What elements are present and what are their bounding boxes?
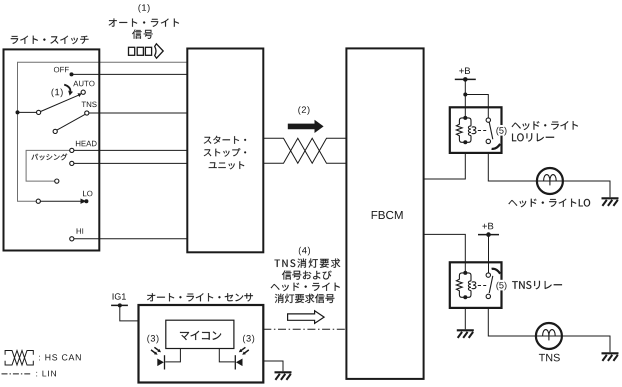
wire HI to unit <box>74 238 188 240</box>
label (1) lever <box>52 89 63 98</box>
wire micro to left photodiode <box>165 349 180 362</box>
unit label line1 <box>204 136 246 144</box>
contact OFF <box>70 72 74 76</box>
rotation arrow (1) <box>64 85 70 92</box>
lever arrowhead <box>78 93 82 97</box>
TNS lamp <box>536 323 562 349</box>
contact LO <box>84 199 88 203</box>
signal flow arrowhead (1) <box>155 44 164 58</box>
relay motion arc @262.3 <box>492 269 501 274</box>
LO moving contact <box>36 199 40 203</box>
twisted pair wire A <box>263 138 346 163</box>
contact passing <box>70 161 74 165</box>
lever moving contact <box>37 110 41 114</box>
label auto light sensor <box>147 293 253 301</box>
label OFF <box>54 67 69 73</box>
label +B (LO relay) <box>459 68 470 75</box>
+B bar (LO relay) <box>455 78 476 80</box>
relay actuation dashes @107.3 <box>478 130 486 132</box>
wire micro to right photodiode <box>219 349 234 362</box>
passing moving contact <box>55 179 59 183</box>
label LO <box>83 191 92 197</box>
label auto light signal line2 <box>132 30 153 39</box>
relay box @107.3 <box>450 107 502 153</box>
wire LO relay switch to lamp <box>488 153 537 181</box>
legend HS CAN text <box>39 354 80 360</box>
wire +B to relay coil <box>464 79 466 118</box>
wire FBCM to TNS relay coil <box>424 234 466 273</box>
label FBCM <box>372 211 403 219</box>
wire TNS to unit <box>89 112 187 114</box>
label (3) left <box>147 335 158 344</box>
label TNS off request line4 <box>275 294 335 303</box>
label light switch <box>11 36 89 45</box>
relay coil winding @107.3 <box>468 126 476 136</box>
label (5) LO relay <box>496 127 506 136</box>
label auto light signal line1 <box>109 19 179 27</box>
relay coil bottom terminal @107.3 <box>463 140 467 144</box>
passing linkage (gray) <box>26 150 70 181</box>
LO lever arm <box>40 200 82 202</box>
label TNS relay <box>512 281 562 289</box>
relay coil top terminal @262.3 <box>463 271 467 275</box>
label TNS off request line3 <box>271 283 340 292</box>
label headlight LO relay line2 <box>512 133 554 141</box>
ground (TNS relay) <box>457 330 474 338</box>
wire LO relay coil to FBCM <box>424 153 466 179</box>
relay coil winding @262.3 <box>468 281 476 291</box>
wire passing to unit <box>74 162 188 164</box>
wire LO lamp to ground <box>563 181 610 197</box>
contact TNS <box>85 111 89 115</box>
relay switch bottom contact @262.3 <box>486 294 490 298</box>
wire OFF to unit <box>72 73 188 75</box>
wire TNS lamp to ground <box>562 336 610 352</box>
relay switch lever @262.3 <box>489 276 493 293</box>
unit label line3 <box>209 161 244 169</box>
label headlight LO lamp <box>508 199 590 208</box>
label +B (TNS relay) <box>482 223 493 230</box>
second lever arm <box>57 114 85 130</box>
unit label line2 <box>204 148 246 156</box>
relay switch lever @107.3 <box>489 122 493 139</box>
FBCM box <box>346 48 423 379</box>
left light rays <box>151 347 159 353</box>
request arrow (4) <box>288 311 325 324</box>
second lever pivot <box>53 129 57 133</box>
relay actuation dashes @262.3 <box>478 285 486 287</box>
rotation arrowhead (1) <box>68 91 73 96</box>
label TNS lamp <box>539 354 560 362</box>
ground (headlight LO) <box>602 198 619 206</box>
label microcomputer <box>180 331 221 340</box>
label IG1 <box>113 293 126 299</box>
light switch box <box>4 49 100 250</box>
wire sensor to ground <box>263 361 283 371</box>
headlight LO lamp <box>537 168 563 194</box>
label (1) top <box>138 4 149 13</box>
label TNS off request line1 <box>275 259 341 268</box>
signal flow squares (1) <box>129 47 152 55</box>
right ray arrowheads <box>239 349 246 355</box>
relay box @262.3 <box>450 262 502 308</box>
relay coil loop left @107.3 <box>456 118 465 142</box>
lever arm toward AUTO <box>41 95 79 111</box>
wire IG1 to sensor <box>120 305 139 321</box>
relay coil top terminal @107.3 <box>463 116 467 120</box>
+B bar (TNS relay) <box>478 234 499 236</box>
right photodiode <box>234 355 236 369</box>
relay motion arc @107.3 <box>492 144 501 149</box>
label HI <box>77 228 84 233</box>
right photodiode triangle <box>236 359 243 367</box>
left photodiode <box>164 355 166 369</box>
label (5) LO relay gap <box>495 125 508 136</box>
contact AUTO <box>81 90 85 94</box>
label AUTO <box>73 81 94 87</box>
wire +B to TNS relay switch <box>488 235 490 276</box>
ground (TNS lamp) <box>602 353 619 361</box>
legend HS CAN wire A <box>5 351 33 366</box>
switch common wire (gray) <box>18 62 188 201</box>
microcomputer box <box>166 320 234 348</box>
relay coil loop right @107.3 <box>465 118 471 142</box>
relay switch top contact @262.3 <box>486 273 490 277</box>
relay switch bottom contact @107.3 <box>486 139 490 143</box>
contact HEAD <box>70 148 74 152</box>
wire HEAD to unit <box>74 149 188 151</box>
IG1 dot <box>118 303 122 307</box>
contact HI <box>70 237 74 241</box>
relay switch top contact @107.3 <box>486 118 490 122</box>
left photodiode triangle <box>157 359 164 367</box>
legend LIN wire <box>2 373 31 375</box>
label (5) TNS relay gap <box>495 280 508 291</box>
auto light sensor box <box>139 305 264 383</box>
+B dot (LO relay) <box>463 77 468 82</box>
lever pivot <box>16 110 20 114</box>
label passing <box>32 154 68 161</box>
IG1 bar <box>111 304 128 306</box>
relay coil loop right @262.3 <box>465 273 471 297</box>
LO lever arrowhead <box>81 199 87 204</box>
relay coil loop left @262.3 <box>456 273 465 297</box>
right light rays <box>241 347 249 353</box>
label (5) TNS relay <box>496 282 506 291</box>
wire TNS relay coil to ground <box>464 308 466 329</box>
label TNS <box>82 102 97 108</box>
label HEAD <box>76 141 97 146</box>
ground (sensor) <box>275 372 292 380</box>
start-stop unit box <box>187 49 263 253</box>
data flow arrow (2) <box>288 120 324 133</box>
label (3) right <box>243 335 254 344</box>
lever link <box>18 111 37 113</box>
twisted pair wire B <box>263 138 346 163</box>
+B dot (TNS relay) <box>486 232 491 237</box>
LIN wire sensor to FBCM <box>263 328 346 330</box>
relay coil bottom terminal @262.3 <box>463 295 467 299</box>
junction +B branch <box>463 93 467 97</box>
label TNS off request line2 <box>282 270 332 279</box>
wire +B branch to relay switch <box>465 95 488 121</box>
label (4) <box>299 247 310 256</box>
wire TNS relay switch to lamp <box>488 308 536 336</box>
legend HS CAN wire B <box>5 351 33 366</box>
label headlight LO relay line1 <box>512 121 578 130</box>
legend LIN text <box>36 371 56 377</box>
left ray arrowheads <box>154 349 161 355</box>
label (2) <box>298 106 309 115</box>
